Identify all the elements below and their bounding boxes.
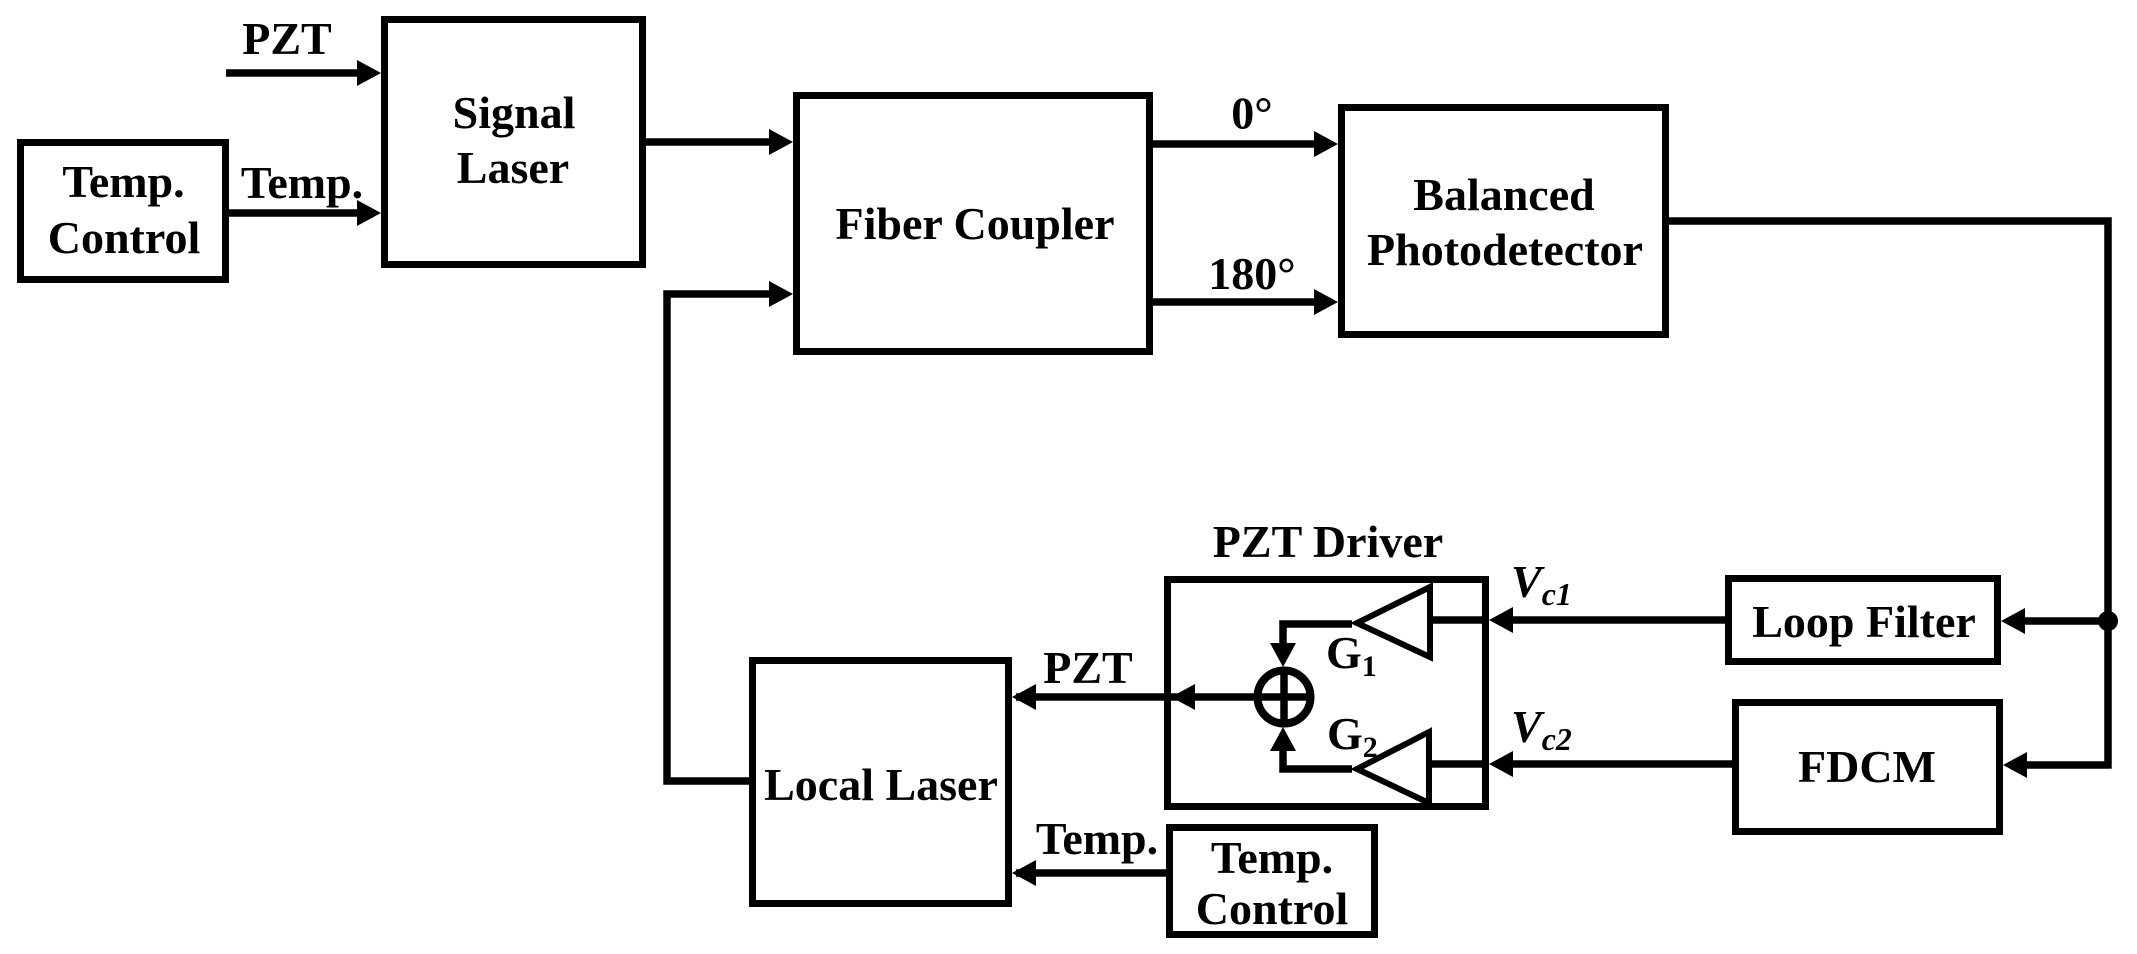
svg-text:Photodetector: Photodetector — [1367, 224, 1643, 275]
arrowhead into Signal Laser (Temp.) — [357, 200, 381, 226]
svg-text:FDCM: FDCM — [1798, 741, 1936, 792]
wire: Fiber Coupler to Balanced Photodetector (180 deg) — [1153, 298, 1317, 306]
summing junction cross horizontal — [1255, 693, 1313, 701]
block: PZT Driver (outline) — [1168, 580, 1486, 807]
block: Fiber Coupler — [797, 96, 1150, 352]
block: Temp. Control (bottom) — [1170, 828, 1375, 935]
block: Signal Laser — [385, 20, 643, 265]
node: junction dot on feedback line — [2098, 611, 2118, 631]
svg-text:180°: 180° — [1208, 248, 1295, 299]
wire: PZT Driver edge to amplifier G1 — [1430, 616, 1489, 624]
wire: G2 output to summing junction — [1283, 748, 1352, 769]
wire: PZT input to Signal Laser — [226, 69, 360, 77]
arrowhead into summing junction (top) — [1270, 643, 1296, 667]
arrowhead into Fiber Coupler (lower input) — [769, 281, 793, 307]
svg-text:Loop Filter: Loop Filter — [1752, 596, 1976, 647]
wire: Loop Filter to PZT Driver (Vc1) — [1510, 616, 1725, 624]
svg-text:Balanced: Balanced — [1413, 169, 1595, 220]
svg-text:Temp.: Temp. — [241, 157, 363, 208]
block: Temp. Control (top-left) — [21, 143, 226, 280]
svg-text:0°: 0° — [1231, 88, 1272, 139]
arrowhead into Signal Laser (PZT) — [357, 60, 381, 86]
wire: G1 output to summing junction — [1283, 624, 1352, 646]
wire: Balanced Photodetector output feedback (right and down to FDCM) — [1669, 221, 2108, 765]
arrowhead into FDCM — [2003, 752, 2027, 778]
arrowhead into PZT Driver (Vc1) — [1489, 607, 1513, 633]
svg-text:Control: Control — [1196, 883, 1349, 934]
svg-text:Temp.: Temp. — [1211, 832, 1333, 883]
svg-text:Temp.: Temp. — [62, 156, 184, 207]
arrowhead into PZT Driver (Vc2) — [1489, 751, 1513, 777]
svg-text:PZT: PZT — [242, 13, 331, 64]
svg-text:Signal: Signal — [453, 87, 576, 138]
svg-text:Temp.: Temp. — [1036, 813, 1158, 864]
wire: Local Laser to Fiber Coupler (feedback loop left) — [667, 294, 772, 781]
wire: Fiber Coupler to Balanced Photodetector (0 deg) — [1153, 140, 1317, 148]
amplifier G1 (triangle) — [1357, 587, 1430, 657]
arrowhead into Fiber Coupler (upper input) — [769, 129, 793, 155]
wire: FDCM to PZT Driver (Vc2) — [1510, 760, 1732, 768]
svg-text:Fiber Coupler: Fiber Coupler — [836, 198, 1115, 249]
amplifier G2 (triangle) — [1357, 732, 1429, 803]
arrowhead into Balanced Photodetector (180 deg) — [1314, 289, 1338, 315]
wire: bottom Temp Control to Local Laser — [1016, 869, 1166, 877]
arrowhead into Local Laser (Temp.) — [1012, 860, 1036, 886]
arrowhead into Local Laser (PZT) — [1012, 684, 1036, 710]
svg-text:PZT Driver: PZT Driver — [1213, 516, 1443, 567]
summing junction circle — [1258, 671, 1311, 724]
wire: junction to Loop Filter — [2022, 617, 2108, 625]
arrowhead into Loop Filter — [2001, 608, 2025, 634]
arrowhead into Balanced Photodetector (0 deg) — [1314, 131, 1338, 157]
wire: summing junction output (PZT to Local Laser) — [1016, 693, 1254, 701]
svg-text:Laser: Laser — [457, 142, 569, 193]
wire: Signal Laser to Fiber Coupler — [646, 138, 772, 146]
svg-text:Control: Control — [48, 212, 201, 263]
arrowhead at PZT Driver inner left edge — [1171, 684, 1195, 710]
block: Local Laser — [753, 661, 1009, 904]
summing junction cross vertical — [1280, 668, 1288, 726]
svg-text:PZT: PZT — [1043, 642, 1132, 693]
block: FDCM — [1736, 703, 2000, 832]
wire: Temp Control to Signal Laser — [229, 209, 360, 217]
block: Loop Filter — [1729, 579, 1998, 662]
arrowhead into summing junction (bottom) — [1270, 727, 1296, 751]
wire: PZT Driver edge to amplifier G2 — [1430, 760, 1489, 768]
svg-text:Local Laser: Local Laser — [764, 759, 998, 810]
block: Balanced Photodetector — [1342, 108, 1666, 335]
